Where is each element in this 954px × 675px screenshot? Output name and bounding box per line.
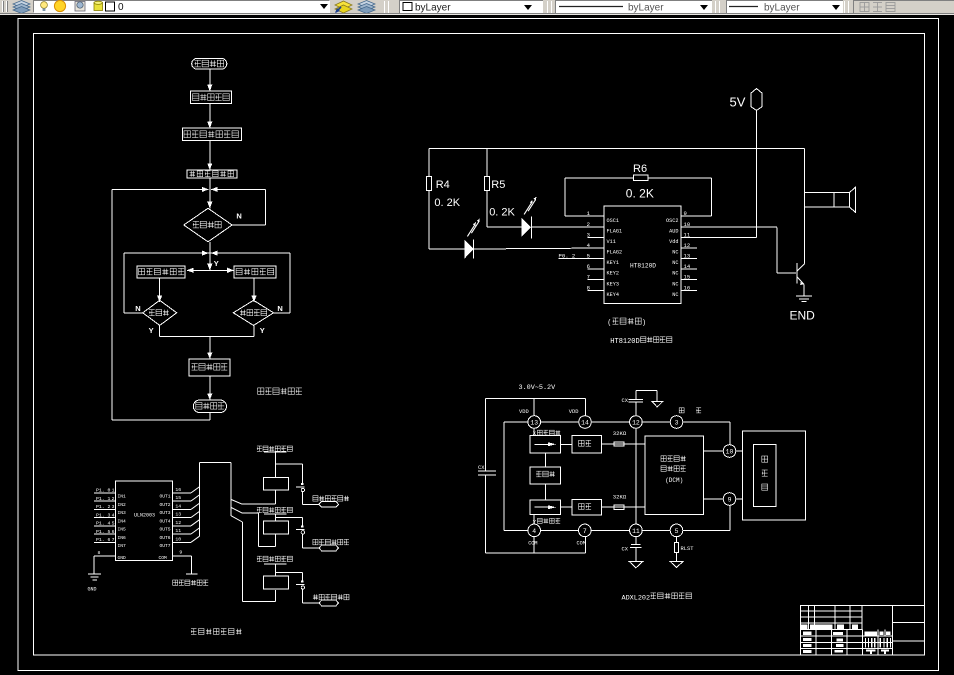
decision diamond 发现入侵	[184, 202, 232, 242]
icon make layer	[334, 0, 353, 14]
label COM	[577, 540, 586, 546]
wire	[207, 69, 212, 91]
pin 14 NC	[672, 263, 697, 277]
pin 7 KEY3	[587, 274, 619, 288]
pin circle 3	[670, 416, 683, 429]
svg-text:12: 12	[175, 520, 181, 526]
power bar 汽车系统电源	[173, 574, 209, 585]
svg-text:9: 9	[728, 496, 732, 503]
resistor R4	[427, 149, 461, 209]
resistor R5	[485, 149, 516, 219]
wire tap to switch	[275, 572, 302, 580]
wire	[487, 190, 521, 227]
pin 7 IN7 P1.6	[94, 537, 126, 549]
svg-text:IN5: IN5	[118, 527, 127, 533]
toolbar grip	[2, 1, 4, 12]
wire to loop junction	[209, 178, 211, 208]
wire N loop right	[211, 189, 265, 225]
split wire to branches	[187, 268, 234, 273]
svg-text:11: 11	[632, 528, 640, 535]
decision diamond 有震动	[143, 300, 177, 325]
title block grid	[800, 606, 924, 655]
pin circle 7	[579, 524, 592, 537]
svg-text:NC: NC	[672, 260, 678, 266]
transistor Q1	[797, 263, 805, 285]
svg-text:IN4: IN4	[118, 518, 127, 524]
pin circle 11	[630, 524, 643, 537]
wire harness diagonal	[191, 536, 199, 542]
svg-text:FLAG2: FLAG2	[607, 250, 623, 256]
process box 串口初始化	[189, 359, 230, 376]
loop-return junction arrows	[202, 187, 218, 192]
svg-text:byLayer: byLayer	[764, 3, 800, 14]
svg-text:13: 13	[530, 419, 538, 426]
label 自检	[679, 408, 701, 413]
svg-text:R5: R5	[491, 179, 505, 191]
svg-text:16: 16	[684, 284, 691, 291]
svg-text:NC: NC	[672, 281, 678, 287]
wire left inner rail	[503, 422, 505, 530]
demod block 解调 upper	[572, 436, 602, 453]
pin 16 OUT1	[159, 487, 191, 500]
pin 13 NC	[672, 252, 697, 266]
pin 12 NC	[672, 242, 697, 256]
wire top supply rail	[429, 148, 805, 150]
pin 9 OSC2	[666, 210, 711, 224]
wire trunk to relay3 bottom	[242, 590, 275, 602]
svg-text:16: 16	[175, 487, 181, 493]
callout label 控制点火线圈	[313, 539, 349, 550]
wire	[274, 564, 276, 576]
pin 5 IN5 P1.4	[94, 521, 126, 533]
label COM	[528, 540, 537, 546]
wire harness diagonal	[191, 520, 199, 526]
caption HT8120D工作原理图	[610, 337, 672, 346]
svg-text:7: 7	[112, 537, 115, 543]
svg-text:OSC2: OSC2	[666, 218, 678, 224]
wire harness diagonal	[191, 495, 199, 501]
wire pin9 to bottom rail	[729, 505, 731, 530]
wire big return loop	[112, 189, 210, 420]
svg-text:): )	[643, 318, 645, 327]
svg-text:3: 3	[587, 232, 590, 239]
svg-text:KEY1: KEY1	[607, 260, 619, 266]
wire Y down	[207, 253, 212, 270]
svg-text:R4: R4	[436, 179, 450, 191]
title block text blobs	[801, 625, 891, 654]
terminator 采取措施	[193, 400, 226, 412]
svg-text:NC: NC	[672, 292, 678, 298]
svg-text:10: 10	[684, 221, 691, 228]
LED D2	[521, 197, 536, 239]
sensor block Y	[530, 500, 561, 514]
pin 4 FLAG2	[587, 242, 622, 256]
capacitor CX bottom	[622, 537, 643, 568]
pin circle 10	[723, 445, 736, 458]
label N	[135, 304, 140, 313]
sensor block X	[530, 436, 561, 453]
flowchart start terminator 上电复位	[192, 58, 227, 69]
caption (语音报警)	[608, 318, 645, 327]
svg-text:14: 14	[175, 503, 181, 509]
svg-text:R6: R6	[633, 163, 647, 175]
pin 2 IN2 P1.1	[94, 496, 126, 508]
svg-text:KEY3: KEY3	[607, 281, 619, 287]
svg-text:4: 4	[532, 528, 536, 535]
svg-text:NC: NC	[672, 271, 678, 277]
wire N left	[124, 312, 143, 314]
wire 5V to Vdd	[756, 110, 758, 237]
wire tap to switch	[275, 518, 302, 526]
wire top supply	[486, 398, 586, 415]
svg-text:IN3: IN3	[118, 510, 127, 516]
svg-text:ADXL202: ADXL202	[622, 594, 651, 602]
svg-text:byLayer: byLayer	[415, 3, 451, 14]
merge wires	[160, 325, 254, 359]
icon layers 2	[357, 0, 376, 14]
caption ADXL202的功能结构图	[622, 593, 692, 602]
label Y轴传感器	[533, 518, 560, 525]
svg-text:7: 7	[583, 528, 587, 535]
svg-text:10: 10	[726, 448, 734, 455]
label VDD	[569, 409, 579, 415]
svg-text:14: 14	[684, 263, 691, 270]
svg-text:IN7: IN7	[118, 543, 127, 549]
resistor R6 loop	[565, 163, 712, 216]
svg-text:HT8120D: HT8120D	[610, 338, 639, 346]
process box 键盘输入手机号	[182, 128, 241, 140]
pin 1 OSC1	[565, 210, 619, 224]
label 3.0V~5.2V	[519, 384, 557, 392]
label X轴传感器	[533, 430, 560, 437]
svg-text:OUT3: OUT3	[159, 510, 170, 516]
svg-text:15: 15	[175, 495, 181, 501]
pin 15 NC	[672, 274, 697, 288]
svg-text:5V: 5V	[730, 94, 746, 109]
wire	[274, 452, 276, 477]
wire	[207, 140, 212, 170]
svg-text:CX: CX	[478, 465, 485, 471]
svg-text:OSC1: OSC1	[607, 218, 619, 224]
wire X sensor to demod	[561, 443, 573, 445]
wire right rail to pin10	[729, 422, 731, 445]
resistor RLST with ground	[670, 537, 694, 568]
capacitor CX top with ground	[622, 391, 663, 416]
decision diamond 门被打开	[233, 300, 273, 325]
wire harness diagonal	[191, 487, 199, 493]
pin 11 OUT6	[159, 528, 191, 541]
pin 10 AUD	[669, 221, 777, 235]
svg-text:12: 12	[684, 242, 691, 249]
svg-text:GND: GND	[88, 587, 97, 593]
wire pin10 to counter	[736, 450, 743, 452]
pin 14 OUT3	[159, 503, 191, 516]
wire trunk to relay2 bottom	[242, 513, 275, 547]
DCM block 脉宽占空比解调器	[645, 436, 704, 514]
power label 汽车系统电源	[257, 446, 293, 451]
wire harness diagonal	[191, 512, 199, 518]
svg-text:COM: COM	[159, 555, 168, 561]
demod block 解调 lower	[572, 499, 602, 515]
svg-text:HT8120D: HT8120D	[630, 263, 656, 270]
svg-text:OUT1: OUT1	[159, 494, 170, 500]
svg-text:0. 2K: 0. 2K	[434, 197, 460, 209]
power bar	[264, 513, 287, 515]
svg-text:5: 5	[112, 521, 115, 527]
label Y	[149, 326, 154, 335]
power label 汽车系统电源	[257, 556, 293, 561]
svg-text:9: 9	[684, 210, 687, 217]
svg-text:P1. 0: P1. 0	[96, 488, 111, 494]
label N	[277, 304, 282, 313]
pin 4 IN4 P1.3	[94, 512, 126, 524]
wire collector to speaker rail	[804, 149, 806, 264]
op-amp chip U1 HT8120D body	[604, 206, 681, 303]
svg-text:P1. 1: P1. 1	[96, 496, 111, 502]
icon layers	[12, 0, 31, 14]
label 主程序流程图	[258, 388, 302, 395]
transistor-array chip U2 ULN2003 body	[116, 481, 173, 560]
label Y	[260, 326, 265, 335]
svg-text:13: 13	[684, 252, 691, 259]
plot style dropdown 随颜色	[853, 0, 954, 13]
pin 6 IN6 P1.5	[94, 529, 126, 541]
switch contact	[296, 581, 319, 604]
wire	[207, 376, 212, 400]
pin 3 V11	[587, 232, 616, 246]
svg-text:6: 6	[587, 263, 590, 270]
wire AUD to transistor base	[777, 227, 796, 273]
wire pin4 to Y sensor	[533, 515, 535, 525]
svg-text:COM: COM	[528, 540, 537, 546]
wire harness diagonal	[191, 503, 199, 509]
wire Y sensor to demod	[561, 506, 573, 508]
svg-text:7: 7	[587, 274, 590, 281]
svg-text:9: 9	[179, 550, 182, 556]
switch contact	[296, 483, 319, 504]
wire diamond to split	[209, 242, 211, 253]
svg-text:P1. 5: P1. 5	[96, 529, 111, 535]
wire bottom pin rail	[504, 529, 730, 531]
svg-text:5: 5	[587, 252, 590, 259]
svg-text:15: 15	[684, 274, 691, 281]
pin 12 OUT5	[159, 520, 191, 533]
svg-text:6: 6	[112, 529, 115, 535]
wire LED2 to FLAG1 pin2	[532, 226, 605, 228]
svg-text:IN2: IN2	[118, 502, 127, 508]
svg-text:Y: Y	[149, 326, 154, 335]
pin 8 GND wire	[94, 550, 126, 574]
svg-text:END: END	[790, 309, 816, 323]
svg-text:3.0V~5.2V: 3.0V~5.2V	[519, 384, 557, 392]
svg-text:8: 8	[98, 550, 101, 556]
pin 16 NC	[672, 284, 697, 298]
wire	[251, 278, 256, 302]
svg-text:AUD: AUD	[669, 229, 678, 235]
svg-text:OUT7: OUT7	[159, 543, 170, 549]
svg-text:FLAG1: FLAG1	[607, 229, 623, 235]
svg-text:byLayer: byLayer	[628, 3, 664, 14]
pin circle 5	[670, 524, 683, 537]
relay coil	[263, 477, 288, 490]
wire pin13 to X sensor	[533, 428, 535, 435]
wire bottom outer rail	[486, 537, 586, 553]
svg-text:VDD: VDD	[569, 409, 579, 415]
wire tap to switch	[275, 464, 302, 483]
svg-text:OUT6: OUT6	[159, 535, 170, 541]
svg-text:P1. 6: P1. 6	[96, 537, 111, 543]
toolbar	[0, 0, 954, 15]
svg-text:OUT4: OUT4	[159, 518, 170, 524]
pin circle 14	[579, 416, 592, 429]
svg-text:3: 3	[675, 419, 679, 426]
pin 5 KEY1	[559, 252, 619, 266]
speaker LS1	[805, 187, 856, 213]
wire	[207, 103, 212, 128]
wire relay1 bottom to trunk	[242, 490, 275, 504]
svg-text:P0. 2: P0. 2	[559, 253, 576, 260]
svg-text:32KΩ: 32KΩ	[613, 493, 627, 500]
power symbol 5V	[730, 89, 762, 111]
svg-text:P1. 3: P1. 3	[96, 512, 111, 518]
process box 系统初始化	[191, 91, 232, 103]
inner loop top rail	[124, 251, 290, 313]
resistor 32K lower	[602, 493, 645, 509]
process box 开启门检测	[234, 266, 276, 278]
process box 开启震动检测	[137, 266, 185, 278]
pin circle 13	[528, 416, 541, 429]
svg-text:COM: COM	[577, 540, 586, 546]
label Y	[214, 259, 219, 268]
svg-text:8: 8	[587, 284, 590, 291]
svg-text:1: 1	[112, 488, 115, 494]
svg-text:P1. 2: P1. 2	[96, 504, 111, 510]
svg-text:IN6: IN6	[118, 535, 127, 541]
power bar	[264, 563, 287, 565]
switch contact	[296, 525, 319, 548]
svg-text:14: 14	[581, 419, 589, 426]
svg-text:3: 3	[112, 504, 115, 510]
counter block 计数器	[742, 431, 805, 520]
pin circle 4	[528, 524, 541, 537]
pin 13 OUT4	[159, 512, 191, 525]
pin 2 FLAG1	[587, 221, 622, 235]
svg-text:5: 5	[675, 528, 679, 535]
wire LED1 to FLAG2 pin4	[474, 248, 605, 249]
svg-text:12: 12	[632, 419, 640, 426]
svg-text:IN1: IN1	[118, 494, 127, 500]
svg-text:10: 10	[175, 536, 181, 542]
relay coil	[263, 521, 288, 534]
wire harness diagonal	[191, 528, 199, 534]
pin 9 COM wire	[159, 550, 192, 575]
callout label 天线模拟控制	[313, 594, 349, 605]
svg-text:(DCM): (DCM)	[665, 477, 683, 484]
lineweight dropdown byLayer	[726, 0, 843, 13]
wire	[157, 278, 162, 302]
svg-text:0: 0	[118, 2, 124, 13]
power label 汽车系统电源	[257, 507, 293, 512]
ground symbol	[88, 574, 101, 592]
svg-text:0. 2K: 0. 2K	[489, 207, 515, 219]
svg-text:VDD: VDD	[519, 409, 529, 415]
svg-text:N: N	[135, 304, 140, 313]
wire	[429, 190, 465, 249]
svg-text:V11: V11	[607, 239, 616, 245]
wire	[545, 453, 547, 467]
svg-text:11: 11	[175, 528, 181, 534]
pin 10 OUT7	[159, 536, 191, 549]
svg-text:KEY2: KEY2	[607, 271, 619, 277]
svg-text:N: N	[277, 304, 282, 313]
pin 1 IN1 P1.0	[94, 488, 126, 500]
wire	[545, 484, 547, 500]
wire left outer rail	[485, 398, 487, 553]
pin circle 12	[630, 416, 643, 429]
svg-text:KEY4: KEY4	[607, 292, 619, 298]
resistor 32K upper	[602, 430, 645, 446]
svg-text:GND: GND	[118, 555, 127, 561]
svg-text:11: 11	[684, 232, 691, 239]
svg-text:2: 2	[112, 496, 115, 502]
power bar	[264, 451, 287, 453]
pin circle 9	[723, 493, 736, 506]
color dropdown byLayer	[399, 0, 543, 13]
svg-text:OUT5: OUT5	[159, 527, 170, 533]
svg-text:CX: CX	[622, 546, 629, 552]
callout label 控制车灯闪烁	[313, 496, 349, 507]
process box 开启微波检测	[187, 170, 237, 178]
pin 15 OUT2	[159, 495, 191, 508]
ground GND (END)	[790, 284, 816, 322]
pin 3 IN3 P1.2	[94, 504, 126, 516]
svg-text:P1. 4: P1. 4	[96, 521, 111, 527]
relay coil	[263, 576, 288, 589]
svg-text:ULN2003: ULN2003	[134, 512, 155, 518]
svg-text:2: 2	[587, 221, 590, 228]
svg-text:Y: Y	[260, 326, 265, 335]
svg-text:13: 13	[175, 512, 181, 518]
caption 闪光报警及自锁	[191, 629, 242, 635]
wire	[274, 514, 276, 521]
svg-text:RLST: RLST	[681, 546, 695, 552]
layer dropdown	[33, 0, 330, 13]
svg-text:NC: NC	[672, 250, 678, 256]
pin 11 Vdd	[669, 232, 756, 246]
pin 8 KEY4	[587, 284, 619, 298]
wire N right	[274, 312, 290, 314]
label VDD	[519, 409, 529, 415]
svg-text:OUT2: OUT2	[159, 502, 170, 508]
svg-text:4: 4	[112, 512, 115, 518]
label N	[236, 212, 241, 221]
svg-text:Y: Y	[214, 259, 219, 268]
svg-text:0. 2K: 0. 2K	[626, 187, 654, 201]
wire DCM to pin10	[704, 450, 724, 452]
pin 6 KEY2	[587, 263, 619, 277]
wire pin12 to pin11 vertical	[635, 428, 637, 524]
svg-text:N: N	[236, 212, 241, 221]
wire pin9 to counter	[736, 498, 743, 500]
oscillator block 振荡器	[530, 467, 561, 484]
svg-text:CX: CX	[622, 398, 629, 404]
label P0.2	[559, 253, 576, 260]
svg-text:Vdd: Vdd	[669, 239, 678, 245]
svg-text:32KΩ: 32KΩ	[613, 430, 627, 437]
linetype dropdown byLayer	[555, 0, 712, 13]
capacitor CX left	[478, 465, 496, 475]
LED D1	[465, 219, 480, 259]
